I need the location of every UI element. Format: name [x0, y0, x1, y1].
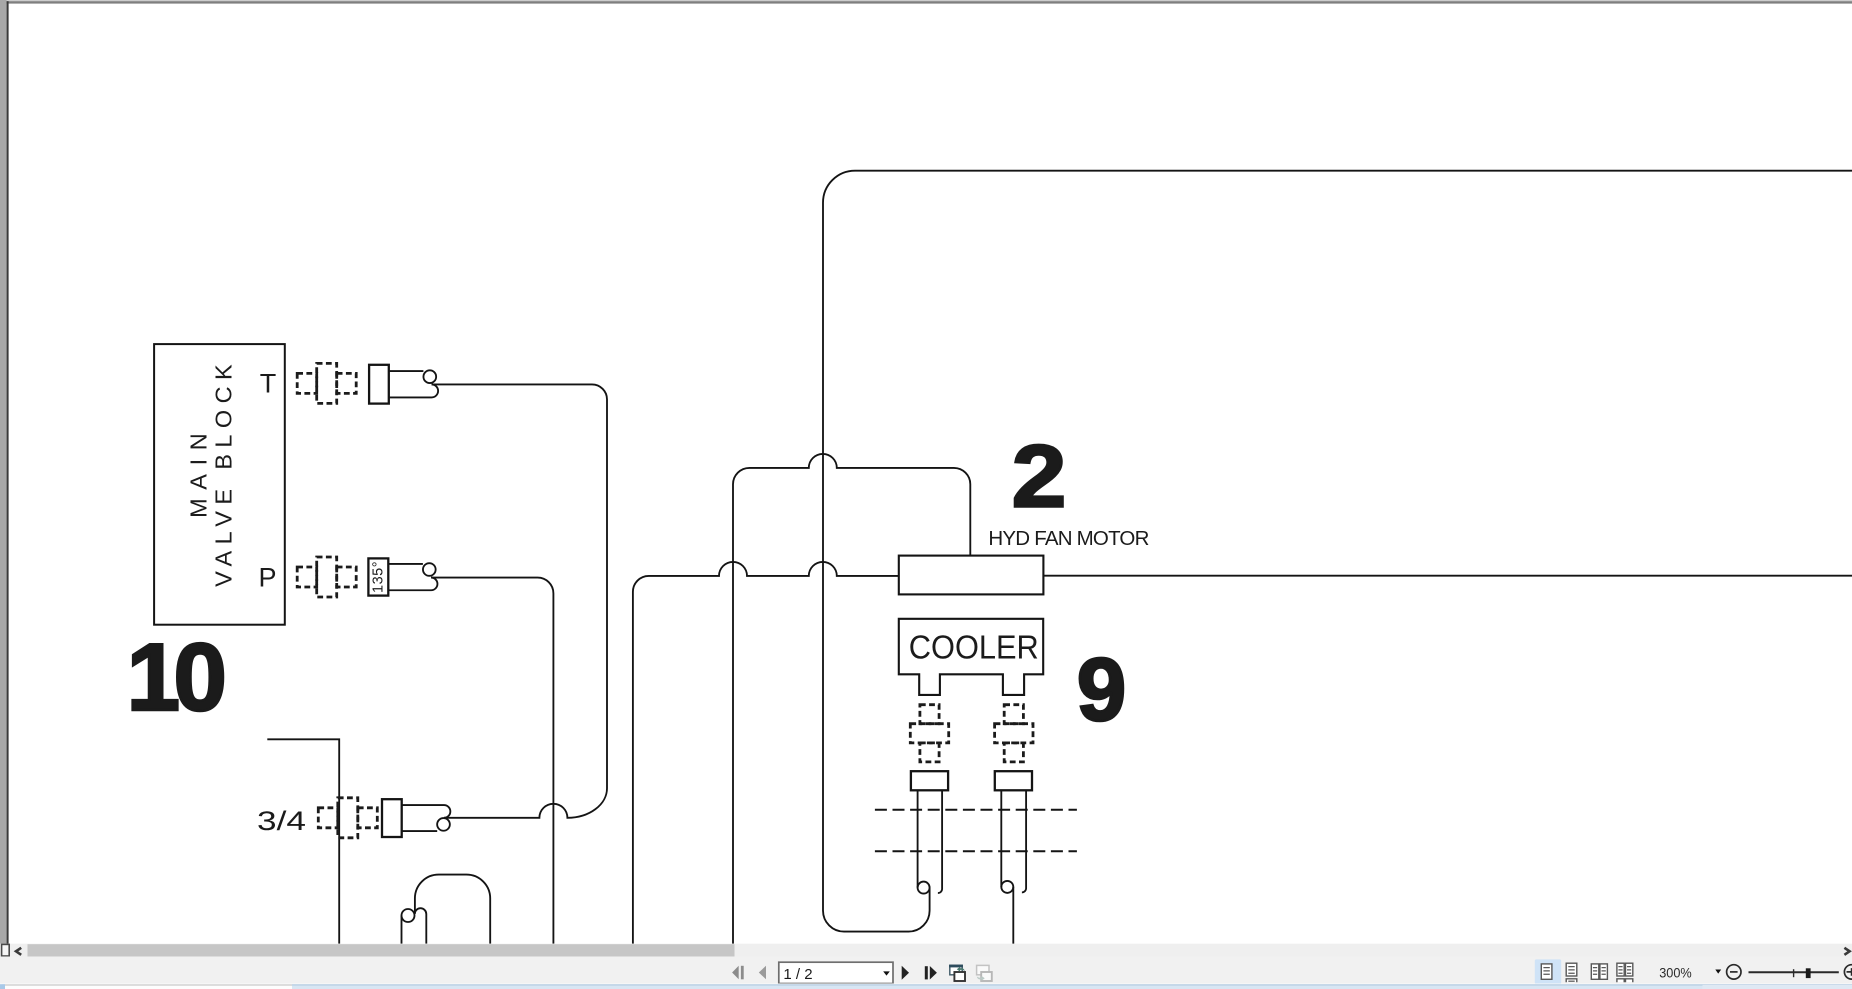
big number 2: [1012, 427, 1067, 526]
page number box: [779, 962, 893, 983]
cooler left tube: [917, 790, 919, 887]
wire: feed to hose-loop connector: [401, 916, 403, 944]
cooler right tube connector ball: [1001, 881, 1013, 893]
cooler right tube: [1000, 790, 1002, 887]
wire: HYD FAN MOTOR outlet to right edge: [1043, 575, 1852, 577]
window top border: [0, 0, 1852, 1]
two page scrolling layout button: [1617, 963, 1633, 982]
T port cross fitting: [297, 363, 356, 403]
wire: bottom to HYD FAN MOTOR left port (corner at x632.9) with hops: [633, 562, 899, 944]
svg-text:300%: 300%: [1659, 966, 1692, 982]
scrollbar left arrow: [16, 948, 21, 955]
scrollbar thumb: [28, 944, 735, 956]
cooler right cross fitting: [995, 705, 1033, 762]
wire: 3/4 branch vertical with corner to left stub: [267, 739, 339, 944]
page left border line: [7, 1, 9, 944]
wire: T port to 3/4 suction coupler (right, down at x607, left at y817.2): [432, 384, 607, 817]
left gray gutter: [0, 0, 7, 944]
MAIN VALVE BLOCK box: [154, 344, 285, 625]
single page layout button (active): [1535, 959, 1561, 984]
radiator lower dashed boundary line: [875, 850, 1077, 852]
zoom out button: [1727, 965, 1741, 979]
COOLER box with legs: [899, 619, 1043, 695]
wire: bottom to HYD FAN MOTOR top port (corner at x733) with hop: [733, 454, 970, 944]
bottom-left blue nub: [0, 984, 5, 989]
cooler left cross fitting: [910, 705, 948, 762]
last page button: [925, 966, 928, 979]
cooler right port cap: [995, 771, 1032, 790]
schematic texts: [127, 364, 1150, 836]
P quick coupler with 135deg label: [368, 558, 437, 595]
first page button: [732, 966, 739, 980]
horizontal scrollbar track: [0, 944, 1852, 957]
scrollbar right arrow: [1844, 948, 1849, 955]
cooler left port cap: [911, 771, 948, 790]
zoom in button (clipped at edge): [1844, 965, 1852, 979]
wire: cooler right tube outlet down to bottom: [1012, 887, 1014, 944]
wire: top return line from right edge, corner down, long vertical, U-turn to cooler left tube: [823, 171, 1852, 932]
hose loop arch: [415, 875, 490, 944]
prev page button: [759, 966, 766, 980]
next page button: [902, 966, 909, 980]
next view icon (disabled): [977, 965, 992, 981]
zoom slider: [1749, 971, 1839, 973]
toolbar background: [0, 957, 1852, 984]
svg-text:1 / 2: 1 / 2: [783, 966, 812, 983]
cooler left tube connector ball: [918, 882, 930, 894]
3/4 quick coupler (mirrored): [382, 799, 450, 837]
continuous scroll layout button: [1566, 963, 1577, 982]
T quick coupler: [369, 365, 438, 404]
P port cross fitting: [297, 557, 356, 597]
hose-loop connector ball: [402, 909, 415, 922]
3/4 cross fitting: [318, 798, 377, 838]
radiator upper dashed boundary line: [875, 809, 1077, 811]
HYD FAN MOTOR rect: [899, 556, 1044, 595]
bottom strip left (white): [0, 985, 292, 989]
wire: P port down to bottom: [431, 578, 553, 944]
two page layout button: [1591, 964, 1607, 979]
wire: hose-loop connector hook down to bottom: [415, 908, 427, 944]
scrollbar left corner box: [2, 944, 10, 956]
previous view icon: [949, 965, 965, 981]
bottom strip right (blue): [292, 985, 1852, 989]
bottom light line: [0, 984, 1852, 985]
